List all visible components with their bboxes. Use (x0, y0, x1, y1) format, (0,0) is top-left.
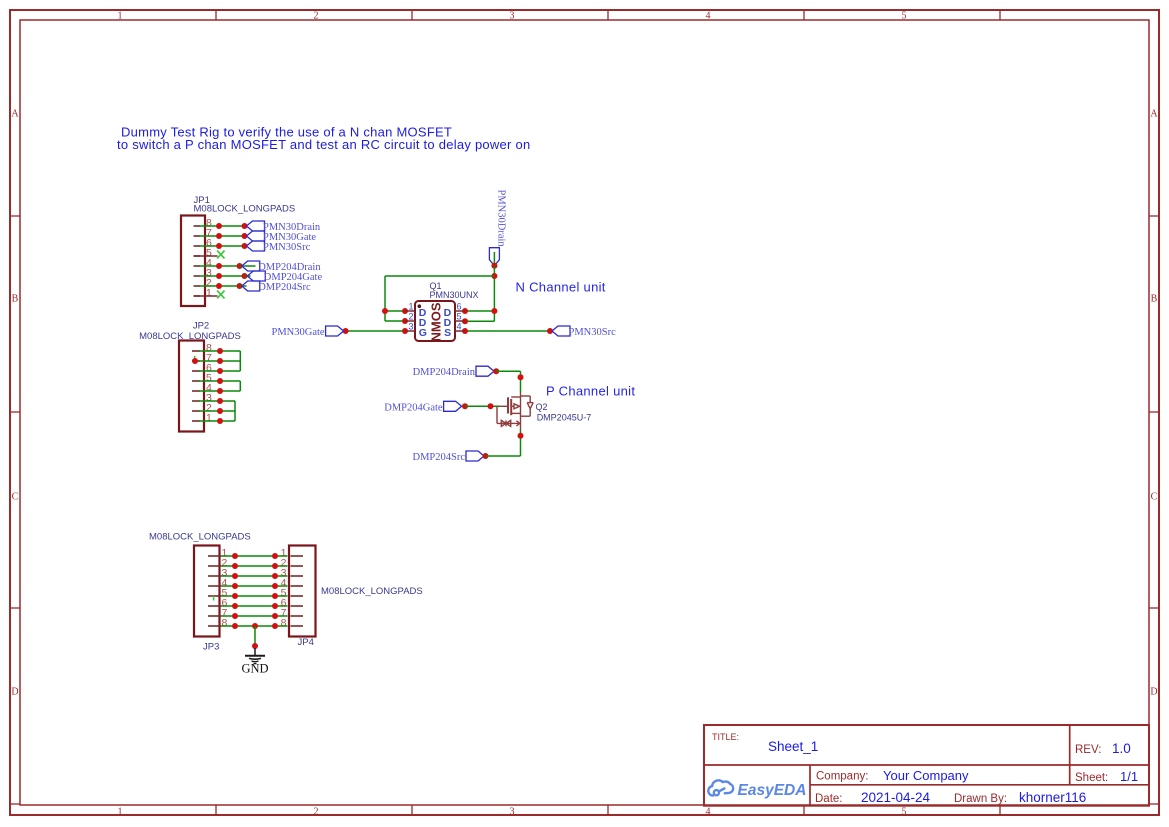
svg-text:PMN30Src: PMN30Src (569, 327, 617, 338)
wire from PMN30Drain flag (493, 252, 495, 266)
JP2 pin 4 stub (192, 390, 200, 392)
junction Q1 pin4 end (462, 328, 468, 334)
svg-text:PMN30Src: PMN30Src (263, 242, 311, 253)
JP1 pin 1 no-connect (194, 295, 218, 297)
wire drain horizontal top (385, 275, 494, 277)
svg-text:1/1: 1/1 (1120, 769, 1138, 784)
svg-text:M08LOCK_LONGPADS: M08LOCK_LONGPADS (149, 532, 251, 543)
Q1 pin1 marker dot (418, 304, 422, 308)
svg-text:JP3: JP3 (203, 642, 219, 653)
junction GND pin (252, 643, 258, 649)
wire JP1 pin 8 (199, 225, 245, 227)
junction JP4 pin 7 (272, 613, 278, 619)
svg-text:1: 1 (408, 301, 413, 311)
JP2 pin 7 stub artifact (194, 356, 196, 361)
svg-text:1: 1 (118, 807, 123, 818)
junction JP4 pin 6 (272, 603, 278, 609)
wire JP2 pin 2 (199, 410, 235, 412)
junction drain net top (491, 273, 497, 279)
wire JP3 pin 5 to JP4 pin 5 (221, 595, 288, 597)
JP1 pin 1 stub (194, 295, 201, 297)
wire DMP204Src horizontal (486, 455, 521, 457)
junction JP2 pin 6 (217, 368, 223, 374)
net flag DMP204Src (242, 281, 260, 291)
svg-text:Your Company: Your Company (883, 768, 969, 783)
svg-text:Date:: Date: (815, 793, 843, 805)
junction Q2 gate pin (488, 403, 494, 409)
svg-text:4: 4 (706, 807, 711, 818)
JP4 pin 1 stub (291, 555, 304, 557)
svg-text:1: 1 (118, 11, 123, 22)
wire JP2 pins 8-6 bridge (239, 351, 241, 371)
wire JP2 pin 1 (199, 420, 235, 422)
EasyEDA logo cloud (708, 780, 733, 795)
svg-text:PMN30Gate: PMN30Gate (272, 327, 325, 338)
wire JP1 pin 2 (199, 285, 240, 287)
junction JP2 pin 8 (217, 348, 223, 354)
JP2 pin 6 stub (192, 370, 200, 372)
JP2 pin 2 stub (192, 410, 200, 412)
svg-text:PMN30UNX: PMN30UNX (430, 290, 479, 300)
svg-text:Q2: Q2 (536, 402, 548, 412)
svg-text:Drawn By:: Drawn By: (954, 793, 1007, 805)
JP2 pin 3 stub (192, 400, 200, 402)
wire DMP204Drain horizontal (496, 370, 520, 372)
svg-text:S: S (444, 327, 451, 339)
junction JP4 pin 2 (272, 563, 278, 569)
JP3 pin 6 stub (208, 605, 221, 607)
junction JP4 pin 3 (272, 573, 278, 579)
wire drain vertical right (493, 266, 495, 322)
wire into DMP204Gate flag (245, 275, 251, 277)
junction JP1 pin 8 (216, 223, 222, 229)
svg-text:B: B (12, 294, 19, 305)
svg-text:8: 8 (281, 617, 287, 629)
junction net flag pin 6 (242, 243, 248, 249)
svg-text:EasyEDA: EasyEDA (738, 782, 807, 799)
svg-text:D: D (1150, 687, 1157, 698)
Q1 pin stub right y=321 (455, 320, 465, 322)
wire into DMP204Drain flag (240, 265, 256, 267)
svg-text:khorner116: khorner116 (1019, 790, 1086, 805)
Q1 pin stub left y=321 (405, 320, 415, 322)
junction JP3 pin 4 (232, 583, 238, 589)
junction JP1 pin 2 (216, 283, 222, 289)
junction PMN30Gate flag tip (343, 328, 349, 334)
connector JP3 body (194, 546, 220, 637)
connector JP2 body (179, 341, 204, 432)
svg-text:D: D (11, 687, 18, 698)
svg-text:3: 3 (408, 321, 413, 331)
JP1 pin 2 stub (194, 285, 201, 287)
wire Q1 pin4 to PMN30Src (465, 330, 550, 332)
wire JP1 pin 6 (199, 245, 245, 247)
JP4 pin 4 stub (291, 585, 304, 587)
net flag PMN30Src (552, 326, 570, 336)
wire DMP204Gate to Q2 gate (465, 405, 500, 407)
wire JP2 pin 6 (199, 370, 240, 372)
junction JP3 pin 1 (232, 553, 238, 559)
JP2 pin 5 stub (192, 380, 200, 382)
svg-text:4: 4 (706, 11, 711, 22)
junction JP2 pin 7 inner (192, 358, 198, 364)
svg-text:6: 6 (457, 301, 462, 311)
JP3 pin 5 stub (208, 595, 221, 597)
wire JP3 pin 4 to JP4 pin 4 (221, 585, 288, 587)
svg-text:JP4: JP4 (298, 637, 314, 648)
JP1 pin 5 no-connect (194, 255, 218, 257)
svg-text:1: 1 (206, 412, 212, 424)
wire JP2 pin 8 (199, 350, 240, 352)
JP4 pin 6 stub (291, 605, 304, 607)
junction PMN30Src flag tip (547, 328, 553, 334)
svg-text:3: 3 (510, 807, 515, 818)
svg-text:A: A (11, 109, 19, 120)
junction JP1 pin 6 (216, 243, 222, 249)
junction PMN30Drain flag tip (491, 263, 497, 269)
svg-text:Sheet_1: Sheet_1 (768, 739, 818, 754)
junction JP2 pin 3 (217, 398, 223, 404)
junction DMP204Gate flag tip (462, 403, 468, 409)
wire JP2 pin 3 (199, 400, 235, 402)
junction JP1 pin 3 (216, 273, 222, 279)
JP2 pin 7 stub (192, 360, 200, 362)
junction JP3 pin 3 (232, 573, 238, 579)
wire PMN30Gate to Q1 pin3 (346, 330, 405, 332)
JP2 pin 8 stub (192, 350, 200, 352)
wire JP1 pin 4 (199, 265, 240, 267)
wire JP1 pin 7 (199, 235, 245, 237)
wire JP3 pin 2 to JP4 pin 2 (221, 565, 288, 567)
svg-text:PMN30Drain: PMN30Drain (495, 190, 506, 248)
svg-text:B: B (1151, 294, 1158, 305)
junction JP4 pin 5 (272, 593, 278, 599)
net flag PMN30Gate (247, 231, 265, 241)
wire JP1 pin 3 (199, 275, 245, 277)
net flag DMP204Drain (476, 366, 494, 376)
junction DMP204Src flag tip (483, 453, 489, 459)
transistor Q1 body (415, 301, 455, 341)
svg-text:DMP204Src: DMP204Src (258, 282, 311, 293)
junction right vertical pin6 (491, 308, 497, 314)
svg-text:C: C (12, 492, 19, 503)
junction net flag pin 2 (237, 283, 243, 289)
svg-text:1: 1 (206, 287, 212, 299)
net flag DMP204Drain (242, 261, 260, 271)
svg-text:Sheet:: Sheet: (1075, 772, 1108, 784)
JP1 pin 8 stub (194, 225, 201, 227)
connector JP1 body (181, 216, 205, 307)
junction JP1 pin 4 (216, 263, 222, 269)
Q1 pin stub right y=311 (455, 310, 465, 312)
junction net flag pin 3 (242, 273, 248, 279)
JP1 pin 7 stub (194, 235, 201, 237)
net flag DMP204Gate (444, 401, 462, 411)
junction JP4 pin 4 (272, 583, 278, 589)
svg-text:M08LOCK_LONGPADS: M08LOCK_LONGPADS (194, 204, 296, 215)
svg-text:REV:: REV: (1075, 744, 1101, 756)
junction Q1 pin6 end (462, 308, 468, 314)
svg-text:NMOS: NMOS (428, 302, 443, 341)
JP3 pin 7 stub (208, 615, 221, 617)
junction JP2 pin 4 (217, 388, 223, 394)
svg-text:P Channel unit: P Channel unit (546, 384, 635, 399)
connector JP4 body (289, 546, 316, 637)
svg-text:DMP204Gate: DMP204Gate (384, 402, 443, 413)
junction Q1 pin1 end (402, 308, 408, 314)
svg-text:8: 8 (222, 617, 228, 629)
svg-text:JP2: JP2 (193, 321, 209, 332)
wire JP2 pin 7 (199, 360, 240, 362)
junction JP3 pin 5 (232, 593, 238, 599)
net flag DMP204Src (466, 451, 484, 461)
junction JP4 pin 8 (272, 623, 278, 629)
wire JP3 pin 1 to JP4 pin 1 (221, 555, 288, 557)
wire JP2 pin 5 (199, 380, 240, 382)
junction GND tap (252, 623, 258, 629)
JP4 pin 8 stub (291, 625, 304, 627)
wire JP2 pins 5-4 bridge (239, 381, 241, 391)
JP4 pin 5 stub (291, 595, 304, 597)
wire JP3 pin 3 to JP4 pin 3 (221, 575, 288, 577)
JP4 pin 3 stub (291, 575, 304, 577)
junction DMP204Drain flag tip (493, 368, 499, 374)
junction net flag pin 8 (242, 223, 248, 229)
junction JP2 pin 1 (217, 418, 223, 424)
JP3 pin 3 stub (208, 575, 221, 577)
junction JP3 pin 8 (232, 623, 238, 629)
wire Q2 source vertical (520, 430, 522, 456)
wire into DMP204Src flag (240, 285, 247, 287)
svg-text:1.0: 1.0 (1112, 741, 1131, 756)
svg-text:2: 2 (314, 11, 319, 22)
JP3 pin 8 stub (208, 625, 221, 627)
wire JP2 pin 4 (199, 390, 240, 392)
JP1 pin 6 stub (194, 245, 201, 247)
wire JP3 pin 8 to JP4 pin 8 (221, 625, 288, 627)
Q1 pin stub left y=311 (405, 310, 415, 312)
wire Q1 pin6 (465, 310, 494, 312)
wire drain vertical left (384, 276, 386, 321)
JP4 pin 2 stub (291, 565, 304, 567)
svg-text:4: 4 (457, 321, 462, 331)
junction left vertical pin1 (382, 308, 388, 314)
JP4 pin 7 stub (291, 615, 304, 617)
junction Q1 pin2 end (402, 318, 408, 324)
junction net flag pin 7 (242, 233, 248, 239)
ground GND symbol (245, 648, 265, 664)
wire Q1 pin1 (385, 310, 405, 312)
svg-text:2021-04-24: 2021-04-24 (861, 790, 931, 805)
Q1 pin stub left y=331 (405, 330, 415, 332)
junction JP1 pin 7 (216, 233, 222, 239)
net flag PMN30Drain (247, 221, 265, 231)
wire JP2 pins 3-1 bridge (234, 401, 236, 421)
svg-text:TITLE:: TITLE: (712, 732, 739, 742)
junction Q1 pin5 end (462, 318, 468, 324)
JP1 pin 3 stub (194, 275, 201, 277)
svg-text:2: 2 (408, 311, 413, 321)
wire to Q2 drain (520, 371, 522, 392)
wire Q1 pin2 (385, 320, 405, 322)
svg-text:3: 3 (510, 11, 515, 22)
JP1 pin 4 stub (194, 265, 201, 267)
junction JP3 pin 6 (232, 603, 238, 609)
svg-text:5: 5 (902, 11, 907, 22)
svg-text:DMP204Src: DMP204Src (412, 452, 465, 463)
svg-text:C: C (1151, 492, 1158, 503)
net flag PMN30Drain vertical (489, 248, 499, 266)
net flag PMN30Gate (326, 326, 344, 336)
junction net flag pin 4 (237, 263, 243, 269)
Q1 pin stub right y=331 (455, 330, 465, 332)
wire to GND (254, 626, 256, 646)
net flag PMN30Src (247, 241, 265, 251)
svg-text:DMP204Drain: DMP204Drain (413, 367, 476, 378)
JP1 pin 5 stub (194, 255, 201, 257)
JP3 pin 2 stub (208, 565, 221, 567)
transistor Q2 symbol (497, 392, 533, 430)
junction Q2 source pin (518, 433, 524, 439)
junction Q1 pin3 end (402, 328, 408, 334)
JP3 pin 5 stub artifact (213, 596, 215, 601)
svg-text:to switch a P chan MOSFET and: to switch a P chan MOSFET and test an RC… (117, 137, 530, 152)
svg-text:A: A (1150, 109, 1158, 120)
wire JP3 pin 6 to JP4 pin 6 (221, 605, 288, 607)
junction JP2 pin 7 (217, 358, 223, 364)
junction JP2 pin 2 (217, 408, 223, 414)
junction JP3 pin 2 (232, 563, 238, 569)
junction JP2 pin 5 (217, 378, 223, 384)
svg-text:5: 5 (902, 807, 907, 818)
net flag DMP204Gate (247, 271, 265, 281)
svg-text:2: 2 (314, 807, 319, 818)
junction JP4 pin 1 (272, 553, 278, 559)
svg-text:M08LOCK_LONGPADS: M08LOCK_LONGPADS (321, 586, 423, 597)
title block outline (704, 725, 1149, 806)
JP2 pin 1 stub (192, 420, 200, 422)
svg-text:5: 5 (457, 311, 462, 321)
JP3 pin 1 stub (208, 555, 221, 557)
svg-text:N Channel unit: N Channel unit (516, 280, 606, 295)
wire JP3 pin 7 to JP4 pin 7 (221, 615, 288, 617)
svg-text:G: G (419, 327, 427, 339)
junction JP3 pin 7 (232, 613, 238, 619)
svg-text:GND: GND (241, 662, 268, 676)
junction Q2 drain pin (518, 374, 524, 380)
JP3 pin 4 stub (208, 585, 221, 587)
wire Q1 pin5 (465, 320, 494, 322)
svg-text:Company:: Company: (816, 771, 868, 783)
svg-text:DMP2045U-7: DMP2045U-7 (537, 412, 592, 422)
